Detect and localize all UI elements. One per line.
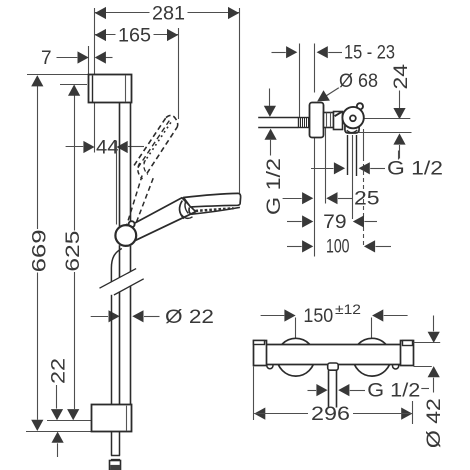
dim 44 arrows [83,141,94,153]
hose upper curve from slider [111,249,121,282]
bottom wall bracket [92,405,132,432]
dim G 1/2 top-right shaft [311,168,334,170]
dim G 1/2 mixer shafts and arrows [308,390,317,392]
dim 7 shafts [57,57,78,59]
dim 22 arrows [51,409,63,420]
svg-text:G 1/2: G 1/2 [264,158,285,215]
hose below bracket [111,432,113,456]
bottom extension line y=420.8 [47,420,92,422]
dim 296 extension lines [253,367,255,421]
dim 79 shaft left [287,221,302,223]
solid hand shower handle [132,198,196,241]
mixer outlet pipe [328,370,330,407]
holder circle [342,107,363,128]
dim o22 arrows [109,310,120,322]
holder hook [345,122,359,133]
svg-text:79: 79 [323,212,346,233]
slider pivot circle [115,225,136,246]
dim 150 extension lines [295,318,297,340]
rail tube right edge [130,103,132,226]
hose end step [111,455,120,457]
holder pivot dot [350,115,356,121]
svg-text:15 - 23: 15 - 23 [344,42,395,63]
svg-text:296: 296 [311,404,350,425]
dim 281 line [95,12,150,14]
extension line x=239.5 for dim 281 [239,8,241,193]
dim 44 shaft right [128,146,144,148]
extension line x=352.3 long [352,135,354,219]
dim 44 shaft left [66,146,84,148]
mixer center outlet nub [328,363,339,370]
mixer body bar [254,344,414,364]
dim 100 shaft left [287,246,302,248]
dim o42 reference lines [414,342,441,344]
extension line x=178.5 for dim 165 [178,28,180,119]
dim 281 arrows [95,7,106,19]
hose left edge lower [111,295,113,405]
wall escutcheon [310,103,324,138]
dim 669 vertical line [37,76,39,229]
svg-text:7: 7 [41,48,52,69]
mixer right handle [353,338,391,376]
spray nozzle dashes [196,208,234,211]
dim 296 line and arrows [254,408,265,420]
union nut [324,113,334,128]
connector line right of text [421,388,429,390]
dim 150 line and arrows [261,315,285,317]
pipe thread block [299,118,310,128]
dashed handle to pivot [126,176,142,227]
svg-text:25: 25 [354,189,380,210]
dim 625 arrows [68,85,80,96]
supply pipe to wall [258,117,298,119]
rail break line lower [114,279,144,295]
svg-text:281: 281 [152,4,185,25]
dim 25 arrows [302,192,313,204]
dashed cone joint [138,163,143,179]
left indicator bump [267,363,273,369]
dim 165 line [95,34,116,36]
dim 24 vertical line and text [399,91,401,109]
rail break line upper [100,269,137,289]
small stub above G text [398,151,400,160]
svg-text:Ø 68: Ø 68 [339,71,378,92]
dim o22 shaft right [144,316,160,318]
svg-text:Ø 22: Ø 22 [165,307,214,328]
holder knob [357,103,363,109]
dim 669 extension line at bracket top [27,74,89,76]
cone joint at head [180,201,184,219]
extension line x=116 down to slider pivot [116,141,118,225]
slider pivot knob [129,221,135,227]
dim 669 arrows [31,75,43,86]
dim 625 vertical line [74,86,76,231]
dim G 1/2 arrows [334,162,345,174]
mixer left end cap [254,341,267,366]
mixer right end cap [401,341,414,366]
right indicator bump [393,363,399,369]
hose conical nut [110,461,121,470]
G 1/2 left dim arrows (pipe diameter) [269,89,271,106]
svg-text:24: 24 [391,63,412,89]
svg-text:G 1/2: G 1/2 [387,159,443,180]
dashed head spray dots [144,122,172,163]
svg-text:669: 669 [29,229,50,272]
svg-text:44: 44 [96,138,119,159]
svg-text:22: 22 [49,358,70,384]
svg-text:625: 625 [63,231,84,272]
dim o42 arrows [428,332,440,343]
extension line x=314.6 [314,44,316,93]
svg-text:165: 165 [118,26,151,47]
top wall bracket [89,75,132,103]
svg-text:G 1/2: G 1/2 [367,380,420,401]
svg-text:±12: ±12 [335,301,361,317]
rail tube left edge [119,103,121,227]
dim 100 arrows [302,240,313,252]
shower head spray rim [189,207,240,214]
svg-text:150: 150 [303,306,333,327]
solid shower head body [184,193,241,207]
dim o22 shaft left [91,316,108,318]
extension line x=325.4 [325,128,327,204]
valve block [334,112,343,130]
24 reference line upper [365,118,411,120]
dim 79 arrows [302,215,313,227]
dim 7 arrows [78,51,89,63]
extension line x=363.8 solid then dashed [363,129,365,157]
dim 24 arrows [393,108,405,119]
dim 625 top extension line [60,84,87,86]
dim 25 shaft left [283,198,302,200]
svg-text:100: 100 [326,237,350,258]
extension line x=88.9 for dim 7 [88,46,90,75]
dim 165 arrows [95,29,106,41]
wall line x=299.1 [299,44,301,118]
hose connector tube lines [347,135,349,175]
bottom extension line y=431.3 [26,431,92,433]
24 reference line lower [359,132,412,134]
dashed hand shower head (stored position) [134,118,166,166]
dim 15-23 shaft and arrows [272,52,286,54]
dim 22 lower shaft [57,443,59,457]
mixer left handle [277,338,315,376]
wall extension line top-left (x=94.5) [94,8,96,75]
svg-text:Ø 42: Ø 42 [424,398,445,448]
o68 leader line and arrow [327,88,339,96]
dim 22 vertical line and text [56,385,58,409]
